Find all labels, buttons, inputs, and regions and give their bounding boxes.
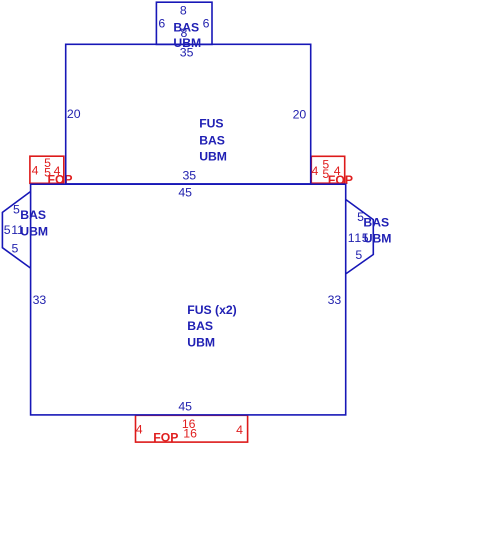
- svg-text:UBM: UBM: [199, 150, 227, 164]
- svg-text:BAS: BAS: [187, 319, 213, 333]
- svg-text:45: 45: [178, 186, 192, 200]
- svg-text:16: 16: [183, 427, 197, 441]
- svg-text:35: 35: [182, 169, 196, 183]
- svg-text:FUS: FUS: [199, 117, 223, 131]
- svg-text:BAS: BAS: [199, 134, 225, 148]
- svg-text:BAS: BAS: [20, 208, 46, 222]
- pad FUS(x2)/BAS/UBM lower rect: [31, 184, 346, 415]
- svg-text:45: 45: [178, 399, 192, 413]
- svg-text:6: 6: [203, 17, 210, 31]
- svg-text:5: 5: [355, 248, 362, 262]
- svg-text:5: 5: [11, 241, 18, 255]
- svg-text:8: 8: [180, 3, 187, 17]
- pad FOP bottom outline: [136, 415, 248, 442]
- svg-text:FOP: FOP: [153, 431, 178, 445]
- svg-text:35: 35: [180, 46, 194, 60]
- pad BAS/UBM top small rect: [156, 2, 212, 44]
- svg-text:4: 4: [136, 423, 143, 437]
- svg-text:6: 6: [158, 17, 165, 31]
- svg-text:4: 4: [236, 423, 243, 437]
- pad FOP left outline: [30, 156, 64, 183]
- pad BAS/UBM left tab polygon: [2, 192, 30, 268]
- svg-text:33: 33: [328, 293, 342, 307]
- svg-text:UBM: UBM: [20, 225, 48, 239]
- svg-text:4: 4: [311, 164, 318, 178]
- svg-text:4: 4: [32, 163, 39, 177]
- svg-text:4: 4: [334, 164, 341, 178]
- svg-text:5: 5: [13, 202, 20, 216]
- pad FUS/BAS/UBM upper rect: [66, 44, 311, 184]
- svg-text:4: 4: [54, 164, 61, 178]
- svg-text:5: 5: [44, 165, 51, 179]
- pad FOP right outline: [311, 156, 344, 183]
- pad BAS/UBM right tab polygon: [346, 199, 374, 274]
- svg-text:33: 33: [33, 293, 47, 307]
- svg-text:20: 20: [293, 107, 307, 121]
- svg-text:UBM: UBM: [364, 232, 392, 246]
- svg-text:5: 5: [4, 223, 11, 237]
- svg-text:UBM: UBM: [187, 335, 215, 349]
- svg-text:5: 5: [322, 167, 329, 181]
- svg-text:FUS (x2): FUS (x2): [187, 303, 236, 317]
- svg-text:BAS: BAS: [363, 215, 389, 229]
- svg-text:20: 20: [67, 107, 81, 121]
